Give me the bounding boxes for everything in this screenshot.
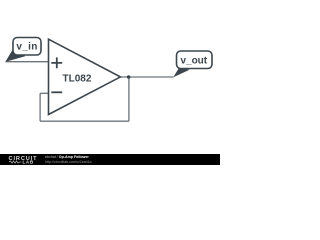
footer CircuitLab logo <box>9 156 38 165</box>
op-amp U1 inverting input marker (−) <box>51 91 62 93</box>
op-amp U1 body <box>49 39 121 114</box>
wire: feedback riser <box>39 93 41 121</box>
svg-text:TL082: TL082 <box>63 74 92 85</box>
junction: output node <box>127 75 131 79</box>
wire: output junction down <box>128 77 130 121</box>
wire: feedback to op-amp inverting input <box>40 92 48 94</box>
flag: net v_in <box>5 38 41 62</box>
svg-text:ebchat / Op-Amp Follower: ebchat / Op-Amp Follower <box>45 155 89 159</box>
svg-text:LAB: LAB <box>23 160 34 165</box>
footer bar <box>0 154 220 165</box>
svg-text:v_in: v_in <box>16 41 37 52</box>
op-amp U1 non-inverting input marker (+) <box>51 57 62 68</box>
footer credit text <box>45 155 92 164</box>
wire: op-amp output to v_out node <box>121 76 174 78</box>
svg-text:v_out: v_out <box>180 55 207 66</box>
flag: net v_out <box>173 51 212 77</box>
svg-text:http://circuitlab.com/c/2zad1a: http://circuitlab.com/c/2zad1a <box>45 160 92 164</box>
wire: v_in to op-amp non-inverting input <box>6 61 49 63</box>
wire: feedback bottom run <box>40 120 129 122</box>
